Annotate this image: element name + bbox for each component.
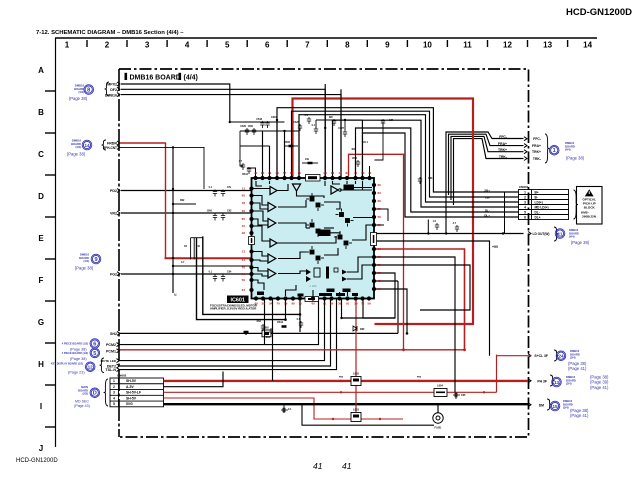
junction corner inner: [284, 318, 287, 321]
brace for connector 1: [545, 134, 549, 163]
svg-text:80: 80: [292, 302, 296, 306]
junction top: [344, 119, 346, 121]
svg-text:4: 4: [185, 41, 190, 50]
wire MPX2 run: [121, 84, 230, 122]
grid column tick: [86, 40, 88, 47]
svg-text:(3/4): (3/4): [566, 382, 572, 386]
callout text: [566, 375, 576, 386]
svg-text:86: 86: [242, 272, 246, 276]
wire below IC v1: [264, 299, 266, 345]
wire below IC v3: [285, 299, 287, 320]
junction bus: [172, 203, 174, 205]
svg-text:F: F: [39, 276, 44, 285]
wire right stub 225: [375, 224, 385, 226]
svg-text:84: 84: [331, 171, 335, 175]
grid column tick: [366, 40, 368, 47]
internal dark label block: [344, 185, 355, 191]
svg-text:1: 1: [113, 379, 115, 383]
svg-text:C627: C627: [338, 127, 344, 130]
wire right pin 289 drop: [375, 289, 408, 333]
svg-text:C/R: C/R: [389, 119, 393, 122]
wire bundle TRK-: [454, 139, 524, 205]
svg-text:PH 3F: PH 3F: [537, 379, 547, 383]
page refs: [68, 371, 85, 375]
junction below IC: [340, 317, 342, 319]
connector circle 15: [550, 401, 560, 411]
callout text: [71, 139, 81, 150]
red junction PH: [418, 380, 421, 383]
grid row tick: [45, 258, 55, 260]
svg-text:91: 91: [346, 302, 350, 306]
svg-text:24: 24: [558, 354, 564, 359]
svg-text:83: 83: [378, 191, 382, 195]
svg-text:260B/J2N: 260B/J2N: [582, 215, 597, 219]
wire S+CL 3F stub run: [497, 355, 532, 357]
wire jack drop: [437, 404, 439, 413]
svg-text:1: 1: [553, 148, 556, 154]
svg-text:R614: R614: [277, 321, 283, 324]
svg-text:8: 8: [87, 87, 90, 93]
svg-text:6: 6: [93, 341, 96, 347]
svg-text:C625: C625: [293, 121, 299, 124]
brace for connector 8: [105, 82, 109, 96]
svg-text:5: 5: [113, 402, 115, 406]
stub TRK+: [524, 150, 527, 154]
wire +9V vertical: [375, 241, 490, 356]
page refs: [69, 96, 88, 101]
page refs: [566, 156, 585, 161]
svg-text:(Page 38): (Page 38): [67, 152, 86, 157]
brace for connector 11: [554, 227, 558, 241]
wire nest row1 B+: [277, 108, 519, 192]
stub DM: [528, 403, 531, 407]
op-amp IC601 body: [252, 178, 375, 299]
stub TRK-: [524, 157, 527, 161]
svg-text:96: 96: [378, 287, 382, 291]
connector circle 24: [556, 351, 566, 361]
svg-text:TSL-N: TSL-N: [105, 368, 116, 372]
page refs: [70, 348, 87, 352]
red junction: [332, 418, 334, 420]
wire left comp drop2: [240, 131, 243, 166]
svg-text:85: 85: [261, 171, 265, 175]
svg-text:95: 95: [242, 194, 246, 198]
svg-text:C: C: [38, 150, 44, 159]
wire VR2 to IC: [121, 212, 251, 214]
wire TSL-N row: [120, 299, 337, 370]
grid row tick: [45, 300, 55, 302]
svg-text:A: A: [38, 66, 44, 75]
svg-text:1000: 1000: [207, 210, 213, 213]
capacitor C625: [298, 124, 302, 131]
svg-text:7: 7: [305, 41, 310, 50]
wire CN601 row1 drop: [504, 192, 506, 234]
wire A-5V row: [164, 372, 224, 387]
capacitor C628: [381, 119, 385, 126]
IC601 top pins: [253, 176, 257, 180]
svg-text:73: 73: [378, 263, 382, 267]
grid column tick: [446, 40, 448, 47]
svg-text:41: 41: [313, 461, 323, 471]
stub FG2: [117, 272, 120, 276]
connector circle 1: [549, 145, 559, 155]
svg-text:(2/2): (2/2): [82, 392, 88, 396]
svg-text:+9V: +9V: [492, 245, 499, 249]
svg-text:(4/4): (4/4): [83, 259, 89, 263]
svg-text:B: B: [38, 108, 44, 117]
svg-text:56: 56: [378, 215, 382, 219]
svg-text:(Page 38): (Page 38): [566, 156, 585, 161]
buffer row: [306, 269, 311, 282]
IC601 right pins: [372, 183, 376, 187]
IC601 top mounted label box: [306, 175, 321, 182]
wire top comp row4: [316, 119, 362, 121]
svg-text:DL+: DL+: [484, 214, 490, 218]
capacitor C638: [435, 223, 439, 230]
svg-text:1: 1: [65, 41, 70, 50]
grid ruler: top horizontal line: [55, 37, 597, 39]
svg-text:70: 70: [361, 171, 365, 175]
svg-text:L602: L602: [353, 372, 359, 376]
svg-text:29: 29: [330, 302, 334, 306]
page refs: [571, 240, 590, 245]
svg-text:C618: C618: [256, 118, 262, 121]
wire red vertical to S+CL: [496, 355, 498, 393]
stub VR2: [117, 211, 120, 215]
svg-text:14: 14: [583, 41, 592, 50]
capacitor C643: [213, 275, 217, 282]
svg-text:C64: C64: [227, 271, 232, 274]
svg-text:15: 15: [242, 224, 246, 228]
connector circle D: [90, 388, 100, 398]
wire LD OUT row: [375, 233, 524, 235]
page refs: [75, 266, 94, 271]
svg-text:MPX2: MPX2: [107, 83, 117, 87]
resistor R614: [282, 325, 287, 328]
stub FFC-: [524, 137, 527, 141]
wire DMB16 run: [121, 95, 341, 177]
svg-text:2B+: 2B+: [484, 189, 490, 193]
grid row tick: [45, 132, 55, 134]
svg-text:10k: 10k: [305, 158, 310, 161]
op-amp A6: [268, 269, 276, 278]
svg-text:C63: C63: [428, 177, 433, 180]
svg-text:PD2: PD2: [110, 189, 117, 193]
svg-text:(3/4): (3/4): [563, 406, 569, 410]
grid row tick: [45, 90, 55, 92]
wire nest row2 B-: [292, 111, 519, 197]
op-amp A8: [331, 186, 338, 194]
svg-text:3: 3: [524, 200, 526, 204]
svg-text:1: 1: [524, 190, 526, 194]
svg-text:40: 40: [254, 171, 258, 175]
svg-text:2: 2: [105, 41, 110, 50]
op-amp A2: [268, 203, 276, 212]
wire DF2 run: [121, 89, 325, 176]
transistor pair Q-B: [336, 209, 354, 227]
svg-text:57: 57: [283, 171, 287, 175]
svg-text:39: 39: [338, 302, 342, 306]
svg-text:D60: D60: [360, 328, 365, 331]
wire 5VG thick black DM: [164, 403, 529, 405]
junction bus: [172, 257, 174, 259]
wire bundle TRK+: [451, 136, 524, 200]
wire red FRDR net horizontal: [165, 257, 252, 259]
transistor pair Q-A: [306, 193, 324, 211]
svg-text:B+: B+: [535, 190, 539, 194]
svg-text:6: 6: [265, 41, 270, 50]
junction SH2: [406, 332, 409, 335]
stub PCM2: [117, 343, 120, 347]
svg-text:C63: C63: [227, 210, 232, 213]
brace for connector 24: [554, 350, 558, 361]
capacitor C651: [281, 408, 288, 412]
wire SH2 row: [120, 332, 399, 334]
bead L605 on SH2 row: [262, 330, 271, 337]
svg-text:FFC-: FFC-: [533, 137, 541, 141]
IC601 bottom mounted label box: [305, 297, 319, 302]
page refs: [570, 408, 589, 418]
wire MUTE LED row: [120, 299, 325, 361]
wire thick corner outer: [203, 236, 300, 314]
IC601 left pins: [249, 186, 253, 190]
svg-text:BLOCK: BLOCK: [584, 205, 596, 209]
svg-text:11: 11: [354, 171, 358, 175]
svg-text:70: 70: [299, 302, 303, 306]
svg-text:79: 79: [268, 171, 272, 175]
wire below IC v5: [342, 299, 396, 319]
svg-text:76: 76: [361, 302, 365, 306]
grid column tick: [487, 40, 489, 47]
grid column tick: [406, 40, 408, 47]
grid ruler: left vertical line: [55, 38, 57, 447]
junction bus top: [172, 146, 174, 148]
svg-text:27: 27: [378, 207, 382, 211]
red junction: [402, 348, 405, 351]
junction bus: [172, 188, 174, 190]
connector CN601 block: [519, 190, 569, 220]
page refs: [67, 152, 86, 157]
ferrite bead L602 on PH 3F line: [351, 377, 361, 386]
junction jack: [437, 403, 440, 406]
svg-text:(Page 23): (Page 23): [68, 371, 85, 375]
svg-text:LD OUT(W): LD OUT(W): [533, 232, 550, 236]
wire top v9: [355, 160, 357, 177]
svg-text:(4/4): (4/4): [565, 148, 571, 152]
wire cap drop C650: [455, 392, 457, 399]
wire +5V bus vertical: [172, 147, 174, 293]
svg-text:34: 34: [269, 302, 273, 306]
grid column tick: [246, 40, 248, 47]
wire bundle FFC-: [446, 132, 524, 234]
IC601 reference designator box: [227, 296, 249, 304]
stub FRA+: [524, 144, 527, 148]
svg-text:C619: C619: [271, 116, 277, 119]
page refs: [74, 400, 90, 409]
wire red PCM1 row: [120, 349, 465, 351]
grid column tick: [527, 40, 529, 47]
red junction: [379, 418, 381, 420]
svg-text:(Page 41): (Page 41): [568, 366, 587, 371]
svg-text:VR2: VR2: [110, 212, 117, 216]
connector circle 13: [552, 377, 562, 387]
wire top v5: [262, 131, 264, 177]
svg-text:(Page 38): (Page 38): [571, 240, 590, 245]
wire top v8: [361, 120, 363, 177]
junction LD a: [427, 232, 429, 234]
brace for connector D: [104, 379, 108, 406]
svg-text:18: 18: [242, 201, 246, 205]
svg-text:AMPLIFIER, 8.2V/5V REGULATOR: AMPLIFIER, 8.2V/5V REGULATOR: [210, 307, 257, 311]
wire red FRDR net vertical: [120, 143, 166, 258]
junction bus: [172, 265, 174, 267]
svg-text:H: H: [38, 360, 44, 369]
wire RFH-CNT run: [120, 147, 204, 189]
svg-text:91: 91: [323, 302, 327, 306]
capacitor C627: [343, 130, 347, 137]
stub DMB16: [117, 93, 120, 97]
connector CN602 block: [110, 378, 164, 407]
svg-text:13: 13: [543, 41, 552, 50]
svg-text:R612: R612: [242, 173, 248, 176]
svg-text:48: 48: [242, 231, 246, 235]
bottom internal dark blocks: [327, 289, 335, 293]
page refs: [568, 361, 587, 371]
IC601 left edge resistor: [249, 237, 255, 245]
svg-text:22: 22: [378, 223, 382, 227]
brace for connector 12: [100, 358, 104, 373]
wire below IC v2: [272, 299, 274, 381]
grid row tick: [45, 216, 55, 218]
wire top comp stub: [315, 120, 317, 128]
wire top v1: [324, 84, 326, 177]
wire r605: [285, 145, 299, 147]
wire top comp row1: [240, 130, 299, 132]
wire top v2: [340, 89, 342, 176]
junction row3: [229, 121, 231, 123]
svg-text:43: 43: [368, 171, 372, 175]
wire r606: [302, 162, 318, 164]
capacitor C650: [453, 393, 460, 397]
wire red top loop net: [293, 99, 474, 325]
grid row tick: [45, 384, 55, 386]
svg-text:FRDR: FRDR: [107, 142, 117, 146]
svg-text:11: 11: [242, 187, 246, 191]
svg-text:RFH-CNT: RFH-CNT: [103, 146, 117, 150]
svg-text:SH-5V-LF: SH-5V-LF: [126, 391, 141, 395]
svg-text:27: 27: [378, 255, 382, 259]
svg-text:66: 66: [378, 199, 382, 203]
page refs: [70, 357, 87, 361]
svg-text:DL+: DL+: [535, 215, 541, 219]
svg-text:4: 4: [524, 205, 526, 209]
transistor pair Q-D: [334, 231, 352, 249]
wire top v3: [276, 120, 278, 177]
op-amp A4: [270, 239, 277, 247]
svg-text:85: 85: [242, 217, 246, 221]
svg-text:(Page 41): (Page 41): [590, 385, 609, 390]
svg-text:MUTE LED: MUTE LED: [101, 359, 117, 363]
svg-text:c 18k: c 18k: [309, 284, 317, 288]
svg-text:4 PIECE BOARD (1/2): 4 PIECE BOARD (1/2): [62, 351, 88, 355]
callout text: [62, 342, 88, 346]
transistor pair Q-C: [306, 219, 324, 237]
connector circle 9: [91, 254, 101, 264]
svg-text:D: D: [38, 192, 44, 201]
svg-text:SH-5V: SH-5V: [126, 396, 137, 400]
connector circle 6: [90, 339, 100, 349]
wire DET2 row: [120, 299, 331, 367]
svg-text:MD LD(+): MD LD(+): [535, 205, 549, 209]
svg-text:9: 9: [94, 257, 97, 263]
svg-text:(Page 38): (Page 38): [69, 96, 88, 101]
svg-text:7-12. SCHEMATIC DIAGRAM – D: 7-12. SCHEMATIC DIAGRAM – DMB16 Section …: [36, 30, 184, 36]
svg-text:(Page 38): (Page 38): [70, 348, 87, 352]
svg-text:2: 2: [524, 195, 526, 199]
svg-text:90: 90: [324, 171, 328, 175]
wire red vertical under IC: [355, 299, 357, 420]
grid column tick: [326, 40, 328, 47]
wire cap drop C651: [283, 404, 285, 413]
wire right comp drop: [375, 122, 384, 160]
diode D601: [353, 326, 357, 331]
callout text: [78, 385, 88, 396]
red junction L602: [340, 380, 343, 383]
svg-text:70: 70: [298, 171, 302, 175]
wire nest row4 MD LD: [333, 120, 519, 207]
wire right mid drop: [375, 257, 456, 392]
svg-text:FL601: FL601: [435, 427, 443, 430]
svg-text:PCM2: PCM2: [106, 343, 116, 347]
comparator bubble: [339, 189, 342, 192]
svg-text:DMB16 BOARD: DMB16 BOARD: [130, 74, 181, 81]
svg-text:L604: L604: [437, 384, 443, 388]
callout text: [79, 253, 89, 264]
grid column tick: [126, 40, 128, 47]
svg-text:LD(+): LD(+): [535, 200, 543, 204]
capacitor C633: [213, 214, 217, 221]
op-amp A7 down: [292, 184, 300, 191]
wire spur v1: [190, 238, 192, 260]
callout text: [570, 349, 580, 360]
stub MUTE LED: [117, 359, 120, 363]
capacitor C636: [332, 119, 336, 126]
junction LD OUT: [502, 232, 504, 234]
stub LD OUT(W): [528, 232, 531, 236]
connector circle 11: [555, 229, 565, 239]
svg-text:37: 37: [378, 271, 382, 275]
connector CN602 pin numbers and labels: [113, 379, 141, 406]
wire top v7: [298, 131, 300, 177]
red junction: [355, 380, 358, 383]
svg-text:5: 5: [93, 351, 96, 357]
resistor R615: [244, 331, 249, 334]
stub RFH-CNT: [117, 145, 120, 149]
svg-text:SH-5V: SH-5V: [126, 379, 137, 383]
capacitor C646: [269, 328, 273, 335]
wire right stub 209: [375, 209, 389, 221]
svg-text:I: I: [40, 402, 42, 411]
wire top stub p14: [369, 166, 371, 178]
svg-text:D: D: [93, 391, 97, 397]
svg-text:13: 13: [242, 250, 246, 254]
capacitor C619: [265, 121, 269, 128]
wire PCM2 row: [120, 299, 319, 345]
svg-text:TRK-: TRK-: [533, 157, 541, 161]
capacitor C639: [455, 225, 459, 232]
svg-text:14: 14: [378, 247, 382, 251]
callout text: [62, 351, 88, 355]
